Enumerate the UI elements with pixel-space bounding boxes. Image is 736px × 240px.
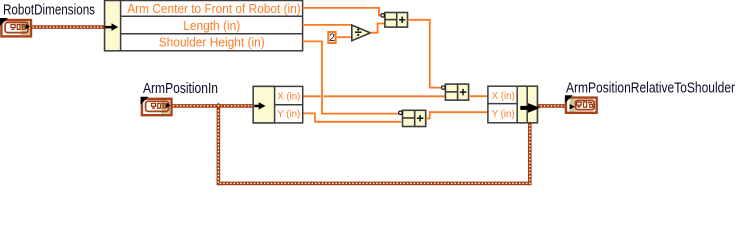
wire: Length row to divide top input [303, 24, 352, 26]
svg-text:ArmPositionRelativeToShoulder: ArmPositionRelativeToShoulder [566, 79, 735, 96]
wire: Arm Center row to subtract U1 inverted input [303, 8, 381, 15]
cluster wire: bundle to indicator [538, 104, 566, 108]
wire: Y (in) row to U3 bottom input [303, 113, 401, 121]
divide function [352, 25, 371, 41]
wire: X (in) row to U2 bottom input (gap at crossing) [303, 95, 446, 97]
svg-text:X (in): X (in) [492, 90, 515, 102]
svg-text:X (in): X (in) [277, 90, 300, 102]
svg-text:Shoulder Height (in): Shoulder Height (in) [159, 35, 265, 50]
bundle row: Y (in) [492, 108, 515, 120]
unbundle row: Arm Center to Front of Robot (in) [127, 1, 301, 16]
compound arithmetic U2 (X minus offset) [442, 84, 469, 100]
cluster wire: ArmPositionIn to unbundle, with branch junction [172, 104, 254, 108]
compound arithmetic U1 (add with inverted top input) [381, 13, 408, 28]
wire: U1 output down to U2 inverted input [408, 20, 442, 88]
cluster wire: RobotDimensions to Unbundle By Name [31, 25, 105, 29]
svg-text:Y (in): Y (in) [277, 108, 300, 120]
unbundle row: Length (in) [183, 18, 240, 33]
unbundle row: Shoulder Height (in) [159, 35, 265, 50]
Bundle By Name node [488, 86, 538, 123]
bundle output arrow [520, 103, 540, 113]
svg-text:ArmPositionIn: ArmPositionIn [143, 80, 218, 97]
control RobotDimensions label [3, 2, 95, 19]
wire: U3 output up to bundle Y input [426, 112, 488, 118]
compound arithmetic U3 (Y minus shoulder height) [399, 110, 426, 126]
Unbundle By Name node (RobotDimensions) [105, 1, 303, 51]
control ArmPositionIn label [143, 80, 218, 97]
wire: Shoulder Height row down to add U3 input [303, 41, 400, 113]
wire: constant 2 to divide bottom input [337, 36, 352, 38]
svg-text:Y (in): Y (in) [492, 108, 515, 120]
cluster wire: junction down, along bottom, up to bundle [218, 108, 529, 183]
indicator ArmPositionRelativeToShoulder label [566, 79, 735, 96]
svg-text:2: 2 [329, 32, 335, 44]
bundle row: X (in) [492, 90, 515, 102]
control ArmPositionIn terminal icon [141, 97, 172, 115]
wire junction diamond [215, 103, 221, 110]
unbundle row: X (in) [277, 90, 300, 102]
wire: U2 output to bundle X input [469, 95, 488, 97]
indicator ArmPositionRelativeToShoulder terminal icon [565, 95, 597, 113]
wire: divide output to add U1 bottom input [370, 24, 384, 33]
Unbundle By Name node (ArmPositionIn) [253, 86, 303, 123]
svg-text:Length (in): Length (in) [183, 18, 240, 33]
svg-text:RobotDimensions: RobotDimensions [3, 2, 95, 19]
svg-text:Arm Center to Front of Robot (: Arm Center to Front of Robot (in) [127, 1, 301, 16]
unbundle row: Y (in) [277, 108, 300, 120]
control RobotDimensions terminal icon [0, 18, 31, 36]
numeric constant 2 [328, 32, 335, 44]
